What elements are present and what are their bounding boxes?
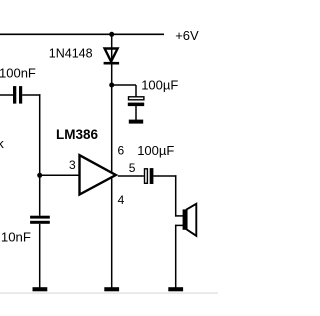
svg-text:+6V: +6V [175,28,199,43]
svg-text:100nF: 100nF [0,65,36,80]
svg-text:1N4148: 1N4148 [49,47,93,61]
svg-text:5: 5 [129,161,136,175]
svg-text:10k: 10k [0,136,4,151]
svg-text:100µF: 100µF [141,78,178,93]
svg-text:10nF: 10nF [1,230,31,245]
svg-text:100µF: 100µF [137,143,174,158]
svg-text:4: 4 [118,193,125,207]
svg-text:3: 3 [69,158,76,172]
svg-text:LM386: LM386 [56,127,99,142]
svg-text:6: 6 [118,143,125,157]
